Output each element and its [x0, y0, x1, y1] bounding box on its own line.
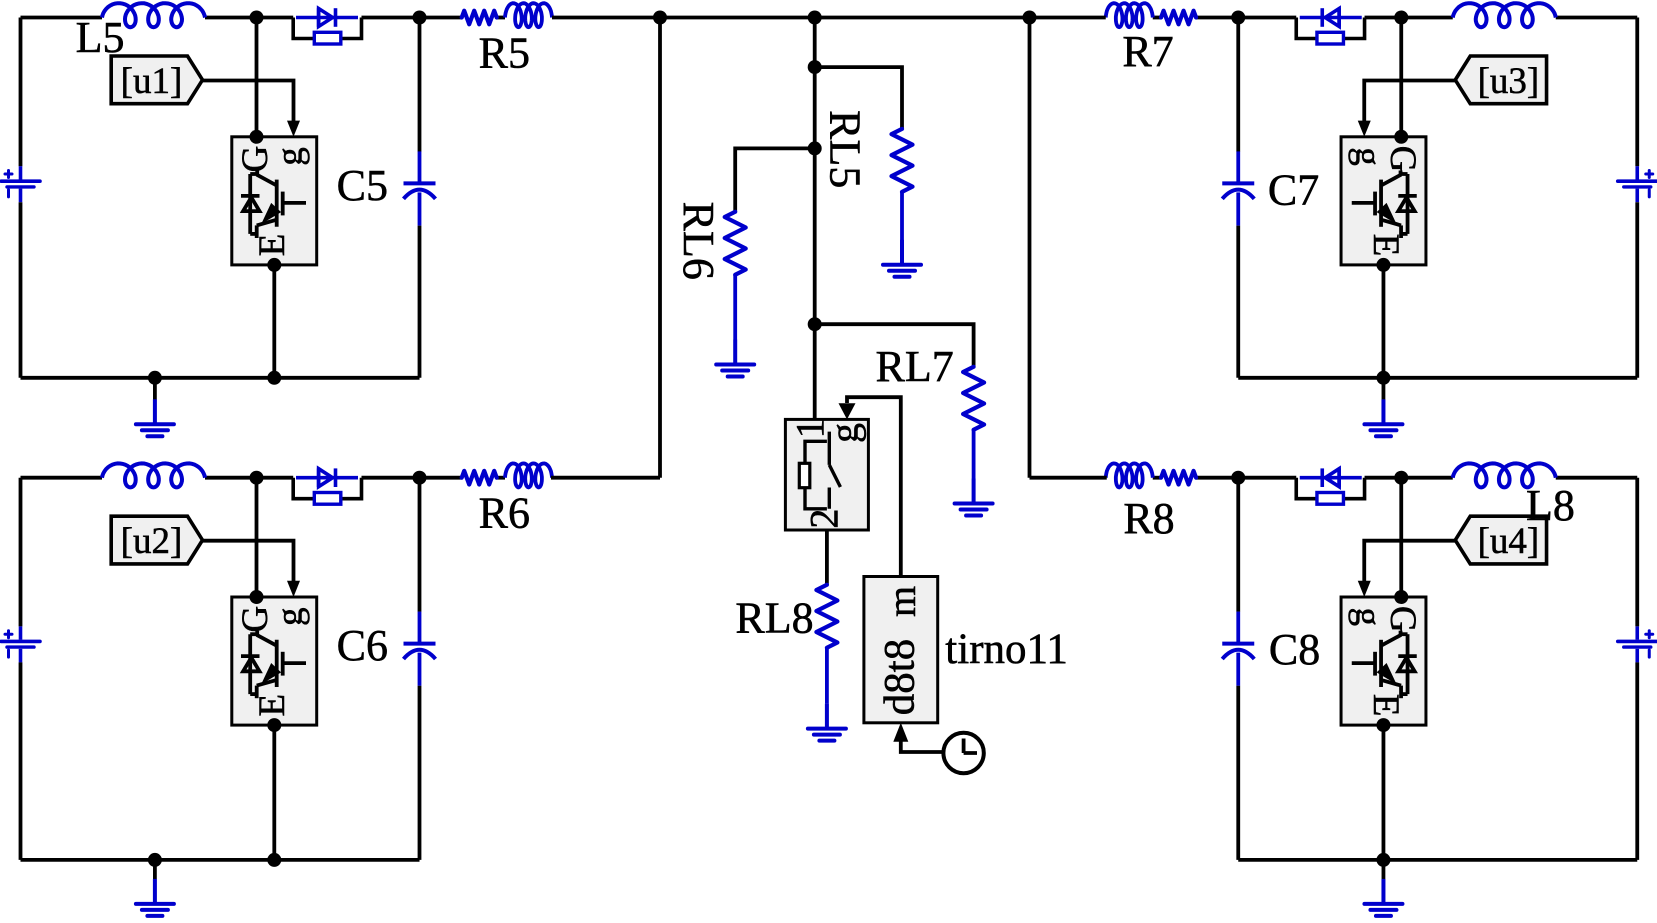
- from tag [u3] pentagon: [1455, 56, 1546, 104]
- node: emitter junction on bottom bus of cell 1: [267, 371, 281, 385]
- node: capacitor branch junction of cell 4: [1231, 471, 1245, 485]
- svg-text:E: E: [252, 234, 293, 257]
- node: capacitor branch junction of cell 1: [413, 11, 427, 25]
- DC source battery of cell 1: [1, 166, 40, 202]
- ground cell 4: [1364, 879, 1402, 916]
- capacitor C7: [1222, 151, 1254, 225]
- svg-text:RL7: RL7: [875, 342, 953, 391]
- resistor RL7: [963, 367, 984, 430]
- svg-text:E: E: [1365, 234, 1406, 257]
- node: ground tap cell 2: [148, 853, 162, 867]
- node A: left riser top: [653, 11, 667, 25]
- resistor R8 branch zigzag: [1161, 471, 1196, 485]
- svg-text:R8: R8: [1123, 494, 1174, 543]
- wire: battery lower lead of cell 1: [19, 202, 23, 378]
- wire: top bus segments of cell 1: [21, 18, 506, 167]
- svg-text:E: E: [1365, 694, 1406, 717]
- wire: capacitor lower lead of cell 4: [1236, 686, 1240, 860]
- wire: capacitor upper lead of cell 4: [1236, 478, 1240, 612]
- svg-text:g: g: [1347, 147, 1388, 166]
- wire: ground stub cell 4: [1382, 860, 1386, 879]
- node: collector branch junction of cell 4: [1394, 471, 1408, 485]
- wire: collector drop of cell 3: [1399, 18, 1403, 137]
- node: IGBT collector port of cell 2: [250, 590, 264, 604]
- wire: capacitor lower lead of cell 2: [418, 686, 422, 860]
- wire: battery lower lead of cell 4: [1635, 662, 1639, 860]
- resistor R5 branch zigzag: [462, 11, 497, 25]
- wire: collector drop of cell 4: [1399, 478, 1403, 597]
- wire: ground stub cell 3: [1382, 378, 1386, 400]
- snubber diode + resistor of cell 4: [1296, 468, 1364, 504]
- wire: RL5 lower lead: [900, 192, 904, 240]
- svg-text:2: 2: [802, 509, 847, 529]
- svg-text:R6: R6: [479, 489, 530, 538]
- node: IGBT emitter port of cell 3: [1376, 258, 1390, 272]
- wire: capacitor upper lead of cell 3: [1236, 18, 1240, 152]
- svg-text:[u1]: [u1]: [121, 61, 183, 102]
- wire: right riser: [1028, 18, 1032, 478]
- svg-text:RL5: RL5: [820, 110, 869, 188]
- ground cell 1: [136, 399, 174, 436]
- wire: breaker output lead: [825, 530, 829, 585]
- resistor R6 branch zigzag: [462, 471, 497, 485]
- inductor L6: [102, 463, 205, 487]
- wire: ground stub cell 1: [153, 378, 157, 400]
- svg-text:[u3]: [u3]: [1478, 61, 1540, 102]
- gate arrowhead of cell 2: [287, 581, 300, 597]
- wire: row2 left bus extension: [551, 476, 660, 480]
- node: IGBT emitter port of cell 2: [267, 718, 281, 732]
- svg-text:g: g: [270, 147, 311, 166]
- svg-text:g: g: [270, 607, 311, 626]
- from tag [u2] pentagon: [111, 516, 202, 564]
- svg-text:L8: L8: [1526, 481, 1575, 530]
- svg-text:R5: R5: [479, 28, 530, 77]
- gate arrowhead of cell 4: [1358, 581, 1371, 597]
- wire: RL8 lower lead: [825, 648, 829, 704]
- gate arrowhead of cell 3: [1358, 121, 1371, 137]
- node E: center bus tap: [808, 11, 822, 25]
- timer block tirno11 body: [864, 577, 938, 723]
- capacitor C8: [1222, 612, 1254, 686]
- wire: RL6 lower lead: [733, 275, 737, 340]
- svg-text:C5: C5: [337, 161, 388, 210]
- wire: RL7 branch: [815, 324, 974, 367]
- capacitor C5: [404, 151, 436, 225]
- svg-text:RL6: RL6: [674, 202, 723, 280]
- resistor R7 branch zigzag: [1161, 11, 1196, 25]
- node: emitter junction on bottom bus of cell 4: [1376, 853, 1390, 867]
- wire: emitter drop of cell 2: [272, 725, 276, 860]
- inductor L7: [1453, 3, 1556, 27]
- inductor of branch R6 branch: [505, 463, 552, 487]
- wire: emitter drop of cell 3: [1382, 265, 1386, 378]
- node: collector branch junction of cell 1: [250, 11, 264, 25]
- breaker internal resistor loop: [805, 441, 827, 509]
- wire: gate signal from tag of cell 1: [203, 81, 294, 123]
- wire: ground stub cell 2: [153, 860, 157, 879]
- breaker switch contact: [829, 432, 840, 509]
- svg-text:tirno11: tirno11: [945, 626, 1068, 673]
- node: IGBT emitter port of cell 1: [267, 258, 281, 272]
- IGBT Q4 symbol: [1352, 631, 1417, 699]
- node: emitter junction on bottom bus of cell 2: [267, 853, 281, 867]
- ground RL5: [883, 240, 921, 277]
- node: IGBT emitter port of cell 4: [1376, 718, 1390, 732]
- inductor of branch R5 branch: [505, 3, 552, 27]
- node: RL6 branch tap: [808, 141, 822, 155]
- wire: emitter drop of cell 4: [1382, 725, 1386, 860]
- wire: emitter drop of cell 1: [272, 265, 276, 378]
- snubber diode + resistor of cell 2: [293, 468, 361, 504]
- svg-text:C7: C7: [1268, 165, 1319, 214]
- IGBT Q3 block body: [1341, 137, 1426, 265]
- DC source battery of cell 2: [1, 626, 40, 662]
- timer input arrowhead: [893, 723, 908, 742]
- breaker internal resistor box: [799, 463, 810, 487]
- ground RL7: [955, 479, 993, 516]
- IGBT Q2 symbol: [241, 631, 306, 699]
- svg-text:E: E: [252, 694, 293, 717]
- node: RL5 branch tap: [808, 60, 822, 74]
- breaker gate arrowhead: [839, 403, 856, 419]
- svg-text:R7: R7: [1122, 27, 1173, 76]
- node: ground tap cell 1: [148, 371, 162, 385]
- svg-text:C6: C6: [337, 621, 388, 670]
- wire: top bus segments of cell 2: [21, 478, 506, 627]
- node: emitter junction on bottom bus of cell 3: [1376, 371, 1390, 385]
- snubber diode + resistor of cell 3: [1296, 8, 1364, 44]
- wire: top bus segments of cell 3: [1153, 18, 1638, 167]
- wire: gate signal from tag of cell 4: [1364, 541, 1455, 583]
- wire: collector drop of cell 1: [255, 18, 259, 137]
- wire: RL5 branch: [815, 67, 902, 129]
- svg-text:[u2]: [u2]: [121, 521, 183, 562]
- ground RL8: [808, 704, 846, 741]
- node: RL7 branch tap: [808, 317, 822, 331]
- node: IGBT collector port of cell 4: [1394, 590, 1408, 604]
- wire: gate signal from tag of cell 3: [1364, 81, 1455, 123]
- from tag [u1] pentagon: [111, 56, 202, 104]
- svg-text:g: g: [822, 423, 867, 443]
- node: IGBT collector port of cell 1: [250, 130, 264, 144]
- wire: gate signal from tag of cell 2: [203, 541, 294, 583]
- inductor of branch R8 branch: [1106, 463, 1153, 487]
- IGBT Q4 block body: [1341, 597, 1426, 725]
- IGBT Q1 block body: [232, 137, 317, 265]
- wire: bottom bus of cell 3: [1238, 376, 1637, 380]
- wire: battery lower lead of cell 2: [19, 662, 23, 860]
- wire: RL6 branch: [735, 148, 815, 211]
- node: collector branch junction of cell 2: [250, 471, 264, 485]
- wire: top bus center section: [552, 16, 1106, 20]
- snubber diode + resistor of cell 1: [293, 8, 361, 44]
- svg-text:d8t8: d8t8: [877, 639, 924, 715]
- wire: breaker gate wire: [847, 397, 901, 576]
- node: IGBT collector port of cell 3: [1394, 130, 1408, 144]
- wire: capacitor lower lead of cell 1: [418, 226, 422, 378]
- resistor RL5: [892, 129, 913, 192]
- wire: collector drop of cell 2: [255, 478, 259, 597]
- wire: bottom bus of cell 2: [21, 858, 420, 862]
- wire: bottom bus of cell 1: [21, 376, 420, 380]
- svg-text:L5: L5: [76, 13, 125, 62]
- node: capacitor branch junction of cell 2: [413, 471, 427, 485]
- inductor L5: [102, 3, 205, 27]
- inductor of branch R7 branch: [1106, 3, 1153, 27]
- node C: right riser top: [1023, 11, 1037, 25]
- from tag [u4] pentagon: [1455, 516, 1546, 564]
- inductor L8: [1453, 463, 1556, 487]
- wire: clock to timer: [901, 740, 944, 752]
- IGBT Q2 block body: [232, 597, 317, 725]
- resistor RL8: [816, 585, 837, 648]
- IGBT Q1 symbol: [241, 171, 306, 239]
- ground cell 2: [136, 879, 174, 916]
- capacitor C6: [404, 612, 436, 686]
- svg-text:g: g: [1347, 607, 1388, 626]
- node: collector branch junction of cell 3: [1394, 11, 1408, 25]
- wire: left riser: [658, 18, 662, 478]
- wire: row2 right bus extension: [1030, 476, 1107, 480]
- wire: capacitor upper lead of cell 2: [418, 478, 422, 612]
- node: capacitor branch junction of cell 3: [1231, 11, 1245, 25]
- resistor RL6: [725, 212, 746, 275]
- svg-text:RL8: RL8: [735, 594, 813, 643]
- wire: capacitor upper lead of cell 1: [418, 18, 422, 152]
- wire: top bus segments of cell 4: [1153, 478, 1638, 627]
- wire: center load vertical: [813, 18, 817, 420]
- svg-text:m: m: [879, 586, 924, 617]
- IGBT Q3 symbol: [1352, 171, 1417, 239]
- svg-text:C8: C8: [1269, 625, 1320, 674]
- wire: battery lower lead of cell 3: [1635, 202, 1639, 378]
- ground RL6: [716, 340, 754, 377]
- wire: RL7 lower lead: [972, 430, 976, 479]
- clock source: [943, 733, 983, 773]
- DC source battery of cell 3: [1618, 166, 1657, 202]
- ground cell 3: [1364, 399, 1402, 436]
- DC source battery of cell 4: [1618, 626, 1657, 662]
- wire: bottom bus of cell 4: [1238, 858, 1637, 862]
- breaker block body: [785, 419, 868, 530]
- wire: capacitor lower lead of cell 3: [1236, 226, 1240, 378]
- gate arrowhead of cell 1: [287, 121, 300, 137]
